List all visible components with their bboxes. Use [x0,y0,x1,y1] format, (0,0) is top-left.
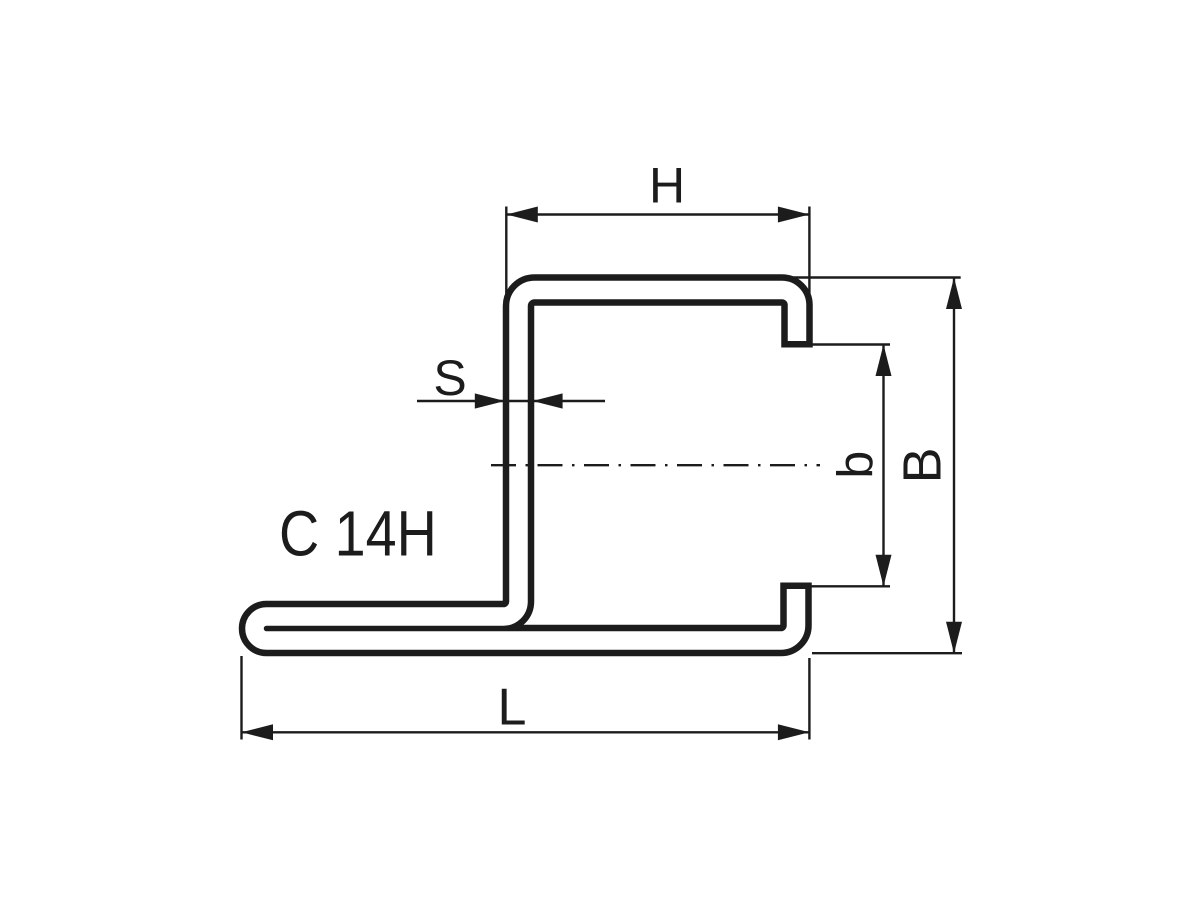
b arrow bottom [876,555,892,587]
S arrow right (points left at web) [533,393,563,408]
profile C 14H sheet cross-section (black outline pass) [255,290,798,641]
profile C 14H sheet cross-section (white interior pass) [255,290,798,641]
L arrow left [242,724,274,740]
L dimension line [242,731,810,733]
H arrow right [778,207,810,223]
b dimension extension line top [806,343,890,345]
B arrow bottom [946,622,962,654]
svg-text:b: b [828,451,884,479]
svg-text:H: H [649,157,685,213]
b arrow top [876,345,892,377]
svg-text:B: B [892,447,952,483]
svg-text:S: S [433,350,466,406]
B dimension line [953,278,955,654]
H dimension line [506,213,809,215]
B dimension extension line top [785,276,961,278]
S arrow left (points right at web) [475,393,505,408]
L dimension extension line left [240,656,242,740]
H dimension extension line left [505,207,507,301]
H arrow left [506,207,538,223]
svg-text:L: L [498,679,527,737]
B arrow top [946,278,962,310]
L arrow right [778,724,810,740]
b dimension extension line bottom [806,585,890,587]
svg-text:C 14H: C 14H [279,498,437,569]
S dimension line [417,400,605,402]
centerline (dash-dot) [491,464,820,466]
b dimension line [882,345,884,587]
B dimension extension line bottom [812,652,962,654]
H dimension extension line right [808,207,810,299]
L dimension extension line right [808,658,810,740]
